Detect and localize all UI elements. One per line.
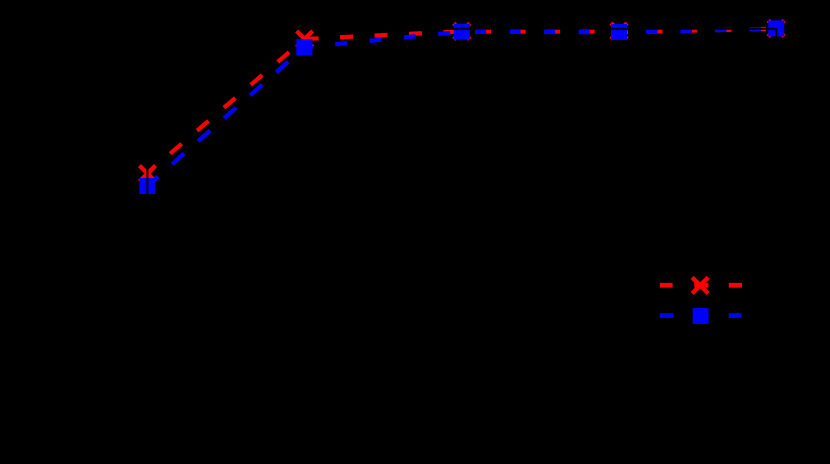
blue square marker P5 [768,20,784,36]
axes left spine [146,29,148,434]
axes right spine [775,29,777,434]
red series segment P4-P5 [619,29,776,33]
legend blue square marker [693,308,709,324]
blue square marker P1 [139,178,155,194]
red X marker P3 [454,23,470,39]
blue square marker P2 [296,39,312,56]
red series segment P1-P2 [147,39,304,173]
blue series segment P2-P3 [305,32,462,48]
legend blue entry line dashes [660,313,742,318]
blue series segment P1-P2 [147,47,304,186]
red X marker P1 [140,166,156,182]
blue square marker P3 [454,24,470,40]
red X marker P4 [611,23,627,39]
red X marker P5 [768,20,784,36]
blue square marker P4 [611,24,627,40]
axes bottom spine [146,433,777,435]
legend red X marker [692,277,708,293]
legend red entry line dashes [660,283,742,288]
blue series segment P3-P4 [462,30,619,35]
red series segment P3-P4 [462,29,619,33]
red X marker P2 [297,31,313,47]
blue series segment P4-P5 [619,29,776,33]
red series segment P2-P3 [305,31,462,39]
axes top spine [146,28,777,30]
